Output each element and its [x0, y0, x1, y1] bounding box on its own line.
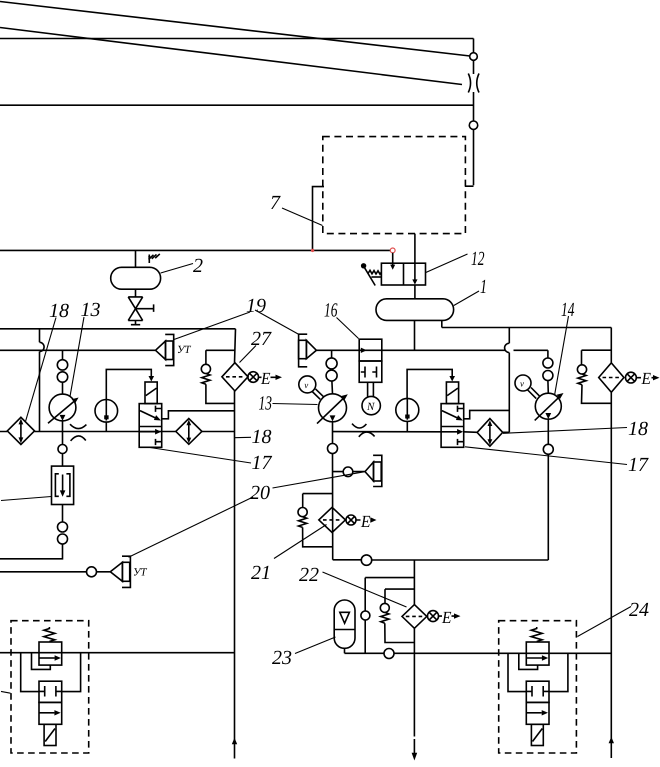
electric motor N circle — [362, 396, 380, 414]
relief block B right loop — [549, 653, 568, 691]
pressure gauge G1 circle — [95, 400, 118, 423]
valve V17b lower port symbol — [458, 439, 464, 445]
leader to label 18 mid-left — [235, 436, 252, 438]
node circle on return line — [87, 567, 97, 577]
valve V12 roller-lever actuator — [361, 263, 366, 268]
muffler UT1 box — [166, 341, 174, 360]
tank T2 riser wire — [135, 250, 137, 267]
muffler UT4 bracket — [373, 455, 382, 486]
muffler UT2 box — [299, 340, 307, 358]
wire bus x=509.3 with hop — [505, 328, 510, 433]
svg-text:24: 24 — [629, 599, 649, 621]
pump P13b outlet arrow — [330, 415, 336, 421]
pump P14 outlet arrow — [545, 413, 551, 419]
wire valve V17a output step — [162, 411, 235, 419]
arrow drain 22 — [454, 613, 461, 618]
leader to label 27 — [240, 346, 257, 363]
flow meter outer box — [52, 466, 74, 504]
valve V16 upper box — [359, 339, 382, 361]
relief block B lower valve upper box — [526, 681, 549, 702]
muffler UT2 bracket — [299, 334, 308, 367]
gauge G1 pointer — [105, 400, 107, 421]
arrow drain 27 — [276, 375, 283, 380]
valve V17b pilot box — [446, 382, 458, 404]
drain stem and bar under valve — [131, 321, 140, 325]
valve V16 lower box — [359, 361, 382, 382]
node circle below pump P14 — [543, 444, 553, 454]
relief block A lower valve upper box — [39, 681, 62, 702]
svg-text:УТ: УТ — [177, 344, 191, 356]
wire from enclosure 7 down to valve 12 — [414, 234, 416, 264]
relief valve RA spring — [44, 627, 55, 642]
wire bottom manifold line y=653.3 — [345, 652, 612, 654]
valve V16 through arrow — [361, 348, 367, 353]
arrow pilot into valve 17a — [149, 376, 155, 382]
tachometer v1 circle — [299, 376, 316, 393]
relief valve RB arrow — [526, 657, 542, 659]
tachometer shaft double line — [312, 389, 323, 399]
pump P13a outlet arrow — [60, 415, 66, 421]
wire pilot line y=250 — [0, 249, 391, 251]
leader to label 22 — [323, 572, 407, 607]
check valve CV4 circle — [577, 365, 586, 374]
check valve CV2 circle — [298, 507, 307, 516]
wire valve 12 to tank T1 — [414, 285, 416, 299]
leader to label 1 — [454, 291, 479, 306]
check valve CV2 spring — [299, 517, 307, 528]
leader to label 21 — [274, 525, 327, 559]
shutoff valve below tank T2 — [128, 297, 143, 321]
wire drain right to E — [636, 377, 653, 379]
leader to label 7 — [282, 208, 323, 226]
valve V17b lower position arrow — [441, 431, 458, 433]
wire branch x=414.4 from manifold down — [413, 560, 415, 753]
relief block A pilot loop inner — [32, 653, 51, 670]
filter diamond right — [599, 363, 624, 392]
wire left bus vertical x=234.5 — [235, 329, 236, 759]
svg-text:21: 21 — [251, 562, 271, 584]
valve V17a upper port symbol — [156, 406, 162, 412]
check valve CV1 ball circle — [201, 364, 210, 373]
svg-text:E: E — [441, 608, 452, 627]
svg-text:УТ: УТ — [133, 567, 147, 579]
wire vertical riser to pump unit — [465, 39, 474, 187]
leader to label 19 right — [255, 310, 299, 335]
wire check CV3 to bus — [385, 623, 415, 642]
node connection point upper — [470, 53, 478, 61]
pump P14 circle — [535, 393, 561, 419]
svg-text:22: 22 — [299, 564, 319, 586]
wire lower return line y=571.8 — [0, 571, 110, 573]
wire to left edge return y=558.8 — [0, 544, 63, 559]
leader to label 18 left — [26, 318, 57, 422]
relief block A lower valve arrow — [39, 712, 54, 714]
wire below flow meter — [62, 505, 64, 523]
svg-text:23: 23 — [272, 647, 292, 669]
svg-text:v: v — [520, 379, 524, 389]
svg-text:7: 7 — [270, 192, 281, 214]
node port circles above pump P13a — [57, 360, 67, 370]
valve V12 actuator link — [371, 276, 381, 278]
svg-text:1: 1 — [480, 276, 487, 298]
wire bottom-left relief line y=652.7 — [0, 652, 235, 654]
wire tank T1 right outlet — [441, 320, 443, 327]
svg-text:v: v — [304, 380, 308, 390]
relief valve RA box — [39, 642, 62, 665]
diamond 18b double arrow — [188, 425, 190, 438]
wire main working line y=431.7 — [0, 431, 235, 433]
muffler UT1 cone — [156, 341, 166, 360]
svg-text:19: 19 — [246, 295, 266, 317]
pump P14 variable arrow — [535, 395, 561, 420]
valve V16 blocked ports — [361, 367, 377, 378]
wire pump P13a up to ports — [62, 382, 64, 394]
leader to label 20 right — [273, 472, 365, 488]
wire diagonal hose 2 — [0, 28, 462, 85]
relief block A lower valve ports — [39, 686, 62, 697]
leader to label 13 left — [70, 317, 84, 397]
relief valve RA arrow — [39, 657, 55, 659]
valve V17b upper position arrow — [442, 411, 458, 419]
arrow up on left bus bottom — [232, 738, 237, 744]
pump P13b circle — [319, 394, 347, 422]
arrow up on right bus bottom — [609, 737, 614, 743]
wire drain 21 to E — [356, 519, 372, 521]
valve V12 right position down arrow — [414, 263, 416, 279]
drain indicator circle-x right — [626, 372, 637, 383]
node port circles below flow meter — [58, 522, 68, 532]
leader to label 24 — [578, 607, 632, 637]
relief block B pilot loop inner — [519, 653, 538, 669]
valve V17a upper position arrow — [140, 411, 156, 419]
leader to label 19 left — [174, 312, 250, 340]
wire second horizontal line — [0, 104, 474, 106]
diamond 18c double arrow — [489, 425, 491, 439]
wire pump P14 down to manifold — [547, 419, 549, 560]
relief block A stem box — [44, 724, 56, 745]
pump P13a circle — [49, 394, 76, 421]
muffler UT3 bracket — [122, 556, 130, 587]
check valve CV3 branch — [385, 589, 414, 603]
arrow drain right — [653, 375, 660, 380]
drain indicator circle-x 21 — [346, 515, 356, 525]
arrow down at center line end — [412, 753, 418, 761]
valve V12 actuator spring — [368, 270, 381, 274]
leader to label 2 — [161, 264, 193, 274]
leader to flow meter label (off page) — [1, 497, 51, 501]
valve V17a main body — [139, 404, 162, 448]
svg-text:E: E — [360, 512, 371, 531]
check valve CV3 circle — [380, 603, 389, 612]
wire pump P13a down to flow meter — [62, 421, 64, 466]
node circle on bottom manifold — [384, 649, 394, 659]
filter diamond 22 — [402, 605, 427, 629]
wire pump P13b down — [332, 421, 334, 559]
wire pilot line gauge G2 to valve 17b — [407, 369, 452, 398]
quick-disconnect coupling — [468, 74, 479, 93]
svg-text:18: 18 — [628, 418, 648, 440]
node circle on branch x=365.2 — [361, 611, 370, 620]
wire suction line y=350.3 — [0, 349, 156, 351]
node connection point lower — [469, 121, 477, 129]
relief block A lower valve lower box — [39, 702, 62, 724]
svg-text:E: E — [641, 369, 652, 388]
accumulator 23 gas triangle — [340, 612, 350, 623]
gauge G2 pointer — [406, 399, 408, 420]
node circle below pump P13b — [328, 444, 338, 454]
muffler UT3 cone — [110, 562, 122, 581]
check valve CV1 spring — [202, 374, 210, 385]
relief block B lower valve ports — [526, 686, 549, 697]
svg-text:20: 20 — [250, 482, 270, 504]
relief block B dashed enclosure 24 — [499, 621, 577, 753]
valve V17b main body — [441, 404, 464, 448]
leader to label 17 right — [465, 447, 627, 465]
wire valve V17b output step — [464, 410, 510, 418]
wire right bus vertical x=611.3 — [610, 328, 612, 759]
wire main supply line y=328 — [0, 328, 236, 330]
tank T2 outlet stem — [135, 289, 137, 297]
wire drain 22 to E — [439, 615, 455, 617]
pressure gauge G2 circle — [396, 398, 419, 421]
main line inside valve16 — [359, 349, 382, 351]
valve V12 left position vent arrow — [392, 263, 394, 266]
wire bus corner to lower manifold y=560 — [333, 559, 549, 561]
muffler UT4 cone — [365, 462, 374, 481]
relief block A dashed enclosure — [11, 621, 89, 753]
BEGIN LABELS — [49, 192, 649, 669]
wire check CV4 to bus — [582, 385, 612, 404]
arrow pilot into valve 17b — [449, 376, 455, 382]
wire from muffler UT2 to valve 16 — [316, 349, 359, 351]
wire pilot line gauge G1 to valve 17a — [106, 369, 151, 399]
relief block B lower valve arrow — [526, 712, 541, 714]
wire manifold corner down to pump14 ports — [547, 350, 549, 358]
flow meter internal arrow — [62, 475, 64, 491]
valve V12 two-position body — [381, 263, 425, 285]
drain indicator circle-x 22 — [428, 611, 439, 622]
node junction two circles left of valve16 — [331, 350, 333, 358]
node port circles above pump P14 — [543, 358, 553, 368]
svg-text:18: 18 — [49, 300, 69, 322]
node red junction dot — [311, 249, 314, 252]
svg-text:17: 17 — [628, 454, 649, 476]
diamond filter 18b — [176, 419, 202, 445]
wire check CV2 to bus — [303, 527, 333, 546]
pump P13a variable arrow — [48, 400, 76, 424]
wire drain 27 to E — [259, 376, 277, 378]
wire top circle to suction line — [62, 350, 64, 359]
check valve CV3 spring — [381, 612, 389, 623]
relief block B stem box — [531, 724, 543, 745]
valve V17a lower port symbol — [156, 439, 162, 445]
filter diamond 21 — [319, 507, 346, 532]
svg-text:2: 2 — [193, 255, 203, 277]
wire from red port down to valve 12 — [392, 253, 394, 265]
node circle on manifold line — [361, 555, 371, 565]
left diamond filter 18a — [7, 417, 34, 444]
wire diagonal hose 1 — [0, 2, 470, 57]
svg-text:12: 12 — [471, 248, 485, 270]
tank T2 capsule body — [111, 267, 161, 289]
accumulator 23 separator line — [334, 629, 355, 631]
svg-text:17: 17 — [252, 452, 273, 474]
leader to label 14 — [555, 316, 569, 396]
leader to label 23 — [295, 637, 336, 654]
wire main line y=350.4 from valve16 to pump14 column — [382, 349, 548, 351]
wire gauge G2 to main line — [406, 421, 408, 431]
filter diamond 27 — [222, 363, 248, 391]
wire check CV1 to bus — [206, 384, 235, 403]
svg-text:16: 16 — [324, 300, 338, 322]
check valve CV4 spring — [578, 374, 586, 385]
muffler UT1 bracket — [165, 334, 174, 365]
diamond filter 18c — [477, 419, 503, 447]
muffler UT2 cone — [306, 340, 316, 358]
leader to label 17 mid-left — [150, 448, 251, 464]
leader tick for off-page label at relief block A — [1, 691, 11, 693]
left diamond 18a double arrow — [20, 424, 22, 438]
node red circle port — [390, 248, 395, 253]
relief valve RB spring — [531, 627, 542, 642]
check valve CV1 branch top — [206, 350, 235, 364]
valve V17a pilot box — [145, 382, 157, 404]
valve V17b upper port symbol — [458, 406, 464, 412]
leader to label 16 — [337, 318, 359, 339]
wire main line y=327.5 to right bus — [442, 327, 612, 329]
drain indicator circle-x 27 — [248, 372, 259, 383]
wire branch vertical x=39.5 with hop — [40, 329, 45, 432]
wire center main working line — [333, 431, 510, 434]
tank T2 vent hatch mark — [149, 254, 160, 263]
wire gauge G1 to main line — [105, 422, 107, 431]
leader to label 18 right — [503, 428, 627, 434]
flow meter inner brackets — [55, 474, 70, 497]
relief block A pilot loop outer — [21, 653, 39, 692]
pump P13b variable arrow — [317, 397, 345, 424]
svg-text:13: 13 — [259, 393, 273, 415]
wire branch x=365.2 to bottom manifold — [365, 578, 414, 654]
throttle restrictor center — [352, 424, 375, 437]
svg-text:E: E — [260, 369, 271, 388]
svg-text:N: N — [366, 401, 375, 413]
pump unit dashed enclosure 7 — [323, 137, 466, 234]
wire accumulator stem — [344, 648, 346, 653]
wire tank T1 bottom stem — [414, 320, 416, 350]
accumulator 23 capsule — [334, 600, 355, 648]
shutoff valve handle — [136, 304, 154, 312]
leader to label 12 — [426, 254, 468, 273]
check valve CV2 branch — [303, 494, 333, 508]
node circle below pump P13a — [58, 445, 67, 454]
tank T1 capsule body — [376, 299, 454, 321]
leader to label 13 center — [273, 404, 318, 405]
arrow drain 21 — [370, 517, 376, 522]
relief block B pilot loop outer — [508, 653, 526, 691]
muffler UT3 box — [122, 562, 129, 581]
node circle on muffler line — [343, 467, 353, 477]
leader to label 20 left — [129, 497, 254, 557]
relief block B lower valve lower box — [526, 702, 549, 724]
throttle restrictor left — [70, 424, 86, 441]
valve V17a lower position arrow — [139, 431, 156, 433]
muffler UT4 box — [374, 462, 382, 481]
port bracket left of enclosure 7 — [313, 187, 325, 251]
wire top horizontal line — [0, 38, 474, 40]
motor M drive pins — [368, 382, 374, 397]
wire to muffler UT4 — [333, 471, 366, 473]
svg-text:18: 18 — [252, 426, 272, 448]
tachometer v2 shaft — [528, 388, 540, 399]
check valve CV4 branch top — [582, 350, 612, 365]
tachometer v2 circle — [515, 375, 531, 391]
relief block A right loop — [62, 653, 81, 692]
relief valve RB box — [526, 642, 549, 665]
